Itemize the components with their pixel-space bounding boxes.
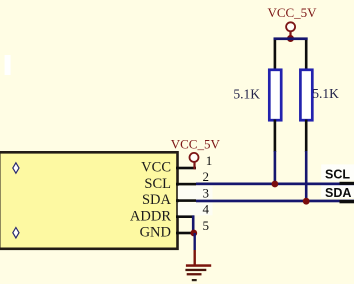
svg-text:5: 5 (203, 218, 210, 233)
svg-text:VCC_5V: VCC_5V (267, 5, 317, 20)
wire SCL (196, 183, 354, 186)
white background of pin number 4 (178, 202, 213, 215)
svg-text:SDA: SDA (325, 186, 351, 200)
wire R1 to SCL (274, 151, 277, 184)
pin 1 VCC (176, 153, 212, 169)
svg-text:SDA: SDA (142, 192, 172, 208)
power symbol VCC_5V top (267, 5, 317, 37)
junction top (287, 35, 294, 42)
net label SDA (321, 185, 354, 200)
net label SCL (321, 164, 354, 181)
svg-text:5.1K: 5.1K (312, 86, 339, 101)
svg-text:ADDR: ADDR (130, 208, 171, 224)
wire SDA (196, 200, 354, 203)
pin 4 ADDR (176, 202, 210, 218)
svg-text:SCL: SCL (325, 167, 350, 181)
svg-text:2: 2 (203, 169, 210, 184)
svg-text:SCL: SCL (144, 176, 171, 192)
power symbol VCC_5V at pin 1 (171, 136, 221, 169)
component U1 (0, 152, 178, 249)
ground (185, 264, 211, 281)
svg-text:1: 1 (206, 153, 213, 168)
junction R1/SCL (272, 181, 279, 188)
white background of pin number 3 (178, 186, 213, 200)
junction R2/SDA (303, 198, 310, 205)
pin 2 SCL (176, 169, 209, 185)
svg-text:5.1K: 5.1K (233, 87, 260, 102)
svg-text:VCC: VCC (141, 160, 171, 176)
resistor R2 (300, 40, 312, 152)
svg-text:VCC_5V: VCC_5V (171, 136, 221, 151)
svg-text:4: 4 (203, 202, 210, 217)
svg-text:GND: GND (140, 225, 171, 241)
wire GND down (194, 233, 196, 250)
pin 3 SDA (176, 186, 209, 202)
wire top connector (274, 37, 308, 40)
resistor R1 (269, 40, 281, 152)
junction GND (190, 230, 197, 237)
svg-text:3: 3 (203, 186, 210, 201)
wire ADDR to GND net (192, 215, 195, 233)
wire R2 to SDA (305, 151, 308, 202)
pin 5 GND (176, 218, 209, 234)
